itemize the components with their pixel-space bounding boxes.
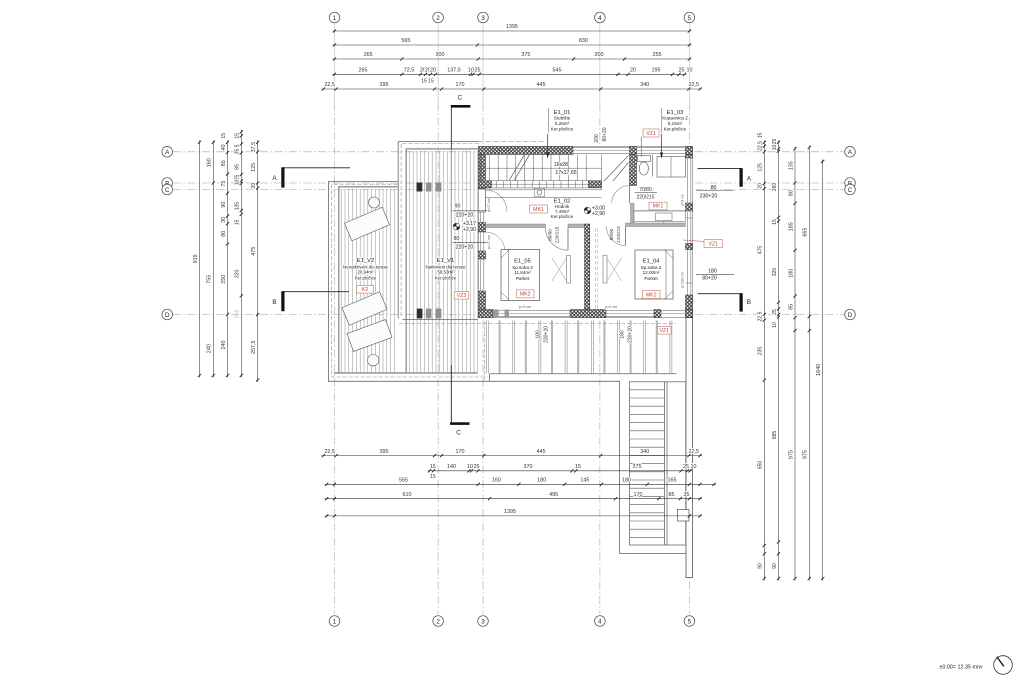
east wall pier 1	[686, 203, 693, 211]
E1_04 door + swing	[607, 227, 626, 246]
svg-text:80: 80	[454, 236, 460, 242]
svg-text:975: 975	[803, 450, 809, 459]
WC toilet	[638, 156, 651, 162]
south wall pier right	[654, 310, 661, 318]
svg-text:140: 140	[447, 464, 456, 470]
svg-text:90: 90	[758, 563, 764, 569]
top dimension row 3	[333, 58, 692, 60]
svg-text:180: 180	[708, 268, 717, 274]
E1_01 leader arrow	[548, 108, 550, 133]
svg-text:80+20: 80+20	[602, 127, 608, 141]
section marker C bottom	[450, 365, 452, 422]
west wall sidelight	[479, 212, 481, 223]
right dimension col b	[778, 140, 780, 580]
svg-text:3: 3	[481, 618, 485, 625]
svg-text:135: 135	[235, 202, 241, 211]
svg-text:180: 180	[788, 269, 794, 278]
lower roof joist band below building	[487, 321, 672, 374]
grid bubbles right A-D	[845, 147, 856, 158]
wardrobe E1_05	[567, 256, 571, 284]
svg-text:495: 495	[549, 492, 558, 498]
svg-text:10: 10	[467, 464, 473, 470]
svg-text:E1_04: E1_04	[643, 258, 661, 264]
svg-text:75: 75	[221, 181, 227, 187]
svg-text:160: 160	[207, 158, 213, 167]
svg-text:15: 15	[772, 219, 778, 225]
svg-text:240: 240	[221, 341, 227, 350]
shower / bath fixture	[657, 157, 686, 178]
svg-text:85: 85	[788, 304, 794, 310]
svg-text:170: 170	[456, 449, 465, 455]
bed E1_05	[501, 250, 540, 301]
svg-text:545: 545	[553, 68, 562, 74]
svg-text:370: 370	[524, 464, 533, 470]
svg-text:235: 235	[758, 347, 764, 356]
svg-text:Ker.pločice: Ker.pločice	[551, 214, 574, 219]
left dimension col 5	[257, 140, 259, 382]
svg-text:320: 320	[772, 268, 778, 277]
svg-text:MK2: MK2	[520, 292, 531, 298]
bottom dimension row 3	[325, 483, 716, 485]
svg-text:22,5: 22,5	[758, 141, 764, 151]
svg-text:200: 200	[594, 134, 600, 143]
svg-text:15 15: 15 15	[421, 79, 434, 85]
svg-text:E1_V2: E1_V2	[357, 258, 374, 264]
right dimension col e	[822, 159, 824, 580]
svg-text:340: 340	[640, 82, 649, 88]
svg-text:160: 160	[492, 478, 501, 484]
svg-text:10: 10	[468, 68, 474, 74]
svg-text:565: 565	[399, 478, 408, 484]
svg-text:Ker.pločice: Ker.pločice	[664, 127, 687, 132]
terrace E1_V2 deck boards	[341, 189, 394, 373]
svg-text:220+20: 220+20	[456, 245, 474, 251]
central wall between bedrooms	[585, 224, 590, 310]
svg-text:80: 80	[221, 231, 227, 237]
external stair treads	[630, 390, 664, 538]
terrace V1 outer box	[398, 142, 478, 319]
svg-text:1395: 1395	[504, 509, 516, 515]
grid bubbles bottom 1-5	[329, 616, 340, 627]
svg-text:15: 15	[221, 133, 227, 139]
svg-text:265: 265	[364, 52, 373, 58]
grid axes dash-dot lines	[334, 23, 336, 103]
svg-text:5: 5	[688, 15, 692, 22]
bottom dimension row 5 (1395)	[325, 515, 702, 517]
svg-text:22,5: 22,5	[689, 449, 700, 455]
bathroom west wall	[630, 155, 637, 186]
svg-text:Ker.pločice: Ker.pločice	[435, 275, 457, 280]
svg-text:180: 180	[536, 330, 542, 339]
wardrobe E1_04	[603, 256, 607, 284]
staircase lower flight treads	[486, 181, 589, 188]
grid bubbles top 1-5	[329, 12, 340, 23]
svg-text:25: 25	[679, 68, 685, 74]
svg-text:C: C	[848, 187, 853, 194]
right dimension col c	[794, 147, 796, 581]
svg-text:15: 15	[235, 133, 241, 139]
svg-text:220+20: 220+20	[456, 213, 474, 219]
svg-text:20,94m²: 20,94m²	[357, 270, 374, 275]
svg-text:22,5: 22,5	[758, 311, 764, 321]
svg-text:180: 180	[537, 478, 546, 484]
svg-text:830: 830	[579, 38, 588, 44]
svg-text:30: 30	[221, 217, 227, 223]
roof overhang dashed line above building	[479, 140, 545, 142]
svg-text:59,53m²: 59,53m²	[437, 270, 454, 275]
detector circle	[534, 189, 545, 197]
svg-text:16x28: 16x28	[554, 162, 568, 168]
right dimension col d	[808, 146, 810, 581]
west wall pier	[479, 223, 486, 233]
terrace posts bottom row	[417, 309, 423, 319]
svg-text:85: 85	[669, 492, 675, 498]
terrace level marker	[453, 223, 460, 230]
svg-text:Parket: Parket	[516, 276, 530, 281]
svg-text:10: 10	[687, 68, 693, 74]
svg-text:22,5: 22,5	[689, 82, 700, 88]
svg-text:25: 25	[683, 464, 689, 470]
bottom dimension row 4	[325, 498, 702, 500]
VZ1 box top + red leader	[643, 129, 659, 137]
top dimension row 4	[333, 73, 687, 75]
svg-text:80: 80	[788, 190, 794, 196]
svg-text:170: 170	[634, 492, 643, 498]
svg-text:125: 125	[251, 163, 257, 172]
svg-text:Ker.pločice: Ker.pločice	[355, 275, 377, 280]
east wall segment top	[686, 155, 693, 159]
svg-text:885: 885	[772, 431, 778, 440]
svg-text:K2: K2	[362, 287, 368, 293]
west wall segment upper	[479, 155, 486, 190]
svg-text:240: 240	[207, 344, 213, 353]
svg-text:C: C	[456, 430, 461, 437]
svg-text:2: 2	[436, 15, 440, 22]
stair wall block left	[479, 181, 492, 188]
exterior wall top segment 2	[630, 147, 637, 155]
svg-text:Parket: Parket	[644, 276, 658, 281]
svg-text:+2,90: +2,90	[592, 211, 605, 217]
staircase E1_01 upper flight treads	[479, 155, 602, 181]
svg-text:15: 15	[235, 220, 241, 226]
svg-text:15: 15	[575, 464, 581, 470]
bathroom south boundary / closet top	[634, 210, 686, 212]
east wall lower corner	[686, 295, 693, 318]
svg-text:145: 145	[580, 478, 589, 484]
svg-text:1: 1	[333, 618, 337, 625]
stair zone lines	[486, 180, 602, 182]
svg-text:395: 395	[380, 449, 389, 455]
top dimension row 2 (565/830)	[333, 44, 692, 46]
west wall lower corner	[479, 291, 486, 318]
east wall window 2	[686, 211, 688, 244]
top wall window (bathroom)	[637, 147, 686, 149]
svg-text:Ker.pločice: Ker.pločice	[551, 127, 574, 132]
south wall window (E1_04)	[606, 310, 654, 312]
svg-text:MK2: MK2	[646, 292, 657, 298]
level marker corridor	[584, 207, 591, 214]
E1_03 leader arrow	[661, 108, 663, 133]
svg-text:35: 35	[684, 492, 690, 498]
left dimension col 1 (915)	[199, 140, 201, 377]
svg-text:610: 610	[403, 492, 412, 498]
svg-text:80/90: 80/90	[548, 229, 553, 241]
svg-text:Kupaonica 2: Kupaonica 2	[662, 116, 688, 121]
svg-text:20: 20	[251, 183, 257, 189]
lounger side tables (circles)	[369, 197, 380, 208]
svg-text:445: 445	[537, 82, 546, 88]
south wall window right	[661, 310, 686, 312]
svg-text:220/215: 220/215	[555, 226, 560, 243]
west wall pier 2	[479, 251, 486, 259]
svg-text:VZ1: VZ1	[646, 131, 656, 137]
svg-text:80+20: 80+20	[702, 276, 717, 282]
svg-text:20: 20	[630, 68, 636, 74]
sun lounger 1	[342, 207, 392, 351]
svg-text:665: 665	[803, 228, 809, 237]
bath divider	[652, 155, 654, 177]
svg-text:505: 505	[235, 309, 241, 318]
section marker A left	[283, 167, 350, 169]
grid bubbles left A-D	[162, 147, 173, 158]
terrace E1_V1 deck boards	[409, 151, 477, 373]
svg-text:25: 25	[475, 68, 481, 74]
west wall door to terrace + swing	[486, 190, 508, 212]
svg-text:D: D	[848, 312, 853, 319]
svg-text:VZ1: VZ1	[659, 328, 669, 334]
svg-text:3: 3	[481, 15, 485, 22]
svg-text:250: 250	[221, 275, 227, 284]
svg-text:565: 565	[401, 38, 410, 44]
svg-text:2: 2	[436, 618, 440, 625]
svg-text:265: 265	[359, 68, 368, 74]
E1_04 north wall	[626, 223, 686, 227]
MK1 box left	[530, 205, 548, 213]
terrace posts top row	[417, 183, 423, 192]
building floor slab (white)	[479, 147, 693, 318]
corridor south wall right part	[568, 224, 585, 228]
exterior wall top segment 1	[479, 147, 574, 155]
svg-text:5: 5	[235, 144, 241, 147]
terrace V1 gray deck border	[405, 149, 407, 373]
svg-text:1640: 1640	[816, 364, 822, 376]
svg-text:VZ3: VZ3	[457, 293, 467, 299]
bottom dimension row 2	[428, 470, 692, 472]
central roof dashed lines	[594, 228, 596, 310]
svg-text:E1_V1: E1_V1	[437, 258, 454, 264]
svg-text:230+20: 230+20	[544, 326, 550, 343]
svg-text:255: 255	[653, 52, 662, 58]
right dimension col a	[763, 140, 765, 580]
east wall pier 2	[686, 244, 693, 250]
top wall window (stair)	[573, 147, 630, 149]
svg-text:p=17 cm: p=17 cm	[487, 235, 491, 249]
svg-text:220/215: 220/215	[636, 195, 654, 201]
svg-text:475: 475	[251, 247, 257, 256]
svg-text:10: 10	[691, 464, 697, 470]
svg-text:MK1: MK1	[533, 207, 544, 213]
section marker B right	[698, 293, 742, 295]
svg-text:125: 125	[758, 163, 764, 172]
terrace V2 gray deck border	[338, 187, 340, 373]
svg-text:A: A	[747, 176, 752, 183]
west wall window 80	[479, 232, 481, 251]
svg-text:1395: 1395	[506, 24, 518, 30]
svg-text:E1_05: E1_05	[514, 258, 531, 264]
terrace outer boundary	[328, 181, 686, 553]
top dimension row 1 (1395)	[333, 30, 692, 32]
top dimension row 5	[321, 88, 702, 90]
south wall right corner	[686, 310, 693, 318]
svg-text:320: 320	[235, 270, 241, 279]
svg-text:25: 25	[235, 175, 241, 181]
svg-text:12,00m²: 12,00m²	[643, 270, 660, 275]
svg-text:4: 4	[598, 618, 602, 625]
svg-text:+2,90: +2,90	[463, 227, 476, 233]
svg-text:80/90: 80/90	[609, 228, 614, 240]
svg-text:5,15m²: 5,15m²	[668, 121, 683, 126]
svg-text:C: C	[165, 187, 170, 194]
hvac label VZ1 lower	[658, 327, 672, 335]
terrace V2 inner dashed border	[332, 184, 488, 377]
corridor door E1_05 + swing	[546, 228, 569, 251]
svg-text:195: 195	[652, 68, 661, 74]
svg-text:25: 25	[772, 139, 778, 145]
svg-text:15: 15	[430, 464, 436, 470]
svg-text:1: 1	[333, 15, 337, 22]
svg-text:135: 135	[788, 161, 794, 170]
svg-text:230+20: 230+20	[700, 193, 718, 199]
east wall window 3 (E1_04, 180)	[686, 250, 688, 296]
svg-text:p=0 cm: p=0 cm	[519, 305, 531, 309]
stair wall block right	[588, 181, 601, 188]
svg-text:90: 90	[455, 204, 461, 210]
svg-text:300: 300	[436, 52, 445, 58]
VZ1 box right + leader	[683, 240, 704, 242]
svg-text:5,26m²: 5,26m²	[555, 121, 570, 126]
svg-text:Natkriveni dio terase: Natkriveni dio terase	[425, 264, 466, 269]
bed E1_04	[635, 250, 673, 299]
section marker B left	[283, 291, 349, 293]
svg-text:VZ1: VZ1	[708, 241, 718, 247]
terrace deck bottom edge	[334, 372, 478, 374]
south wall centre pier	[570, 310, 606, 318]
bathroom door + swing	[612, 186, 630, 204]
left dimension col 3	[227, 140, 229, 377]
svg-text:180: 180	[620, 330, 626, 339]
svg-text:Nenatkriveni dio terase: Nenatkriveni dio terase	[343, 264, 388, 269]
svg-text:p=17 cm: p=17 cm	[487, 198, 491, 212]
svg-text:p=130 cm: p=130 cm	[680, 272, 684, 288]
svg-text:185: 185	[788, 222, 794, 231]
svg-text:200: 200	[595, 52, 604, 58]
svg-text:±0.00= 12.35 mnv: ±0.00= 12.35 mnv	[939, 664, 983, 670]
svg-text:A: A	[272, 175, 277, 182]
left dimension col 2	[212, 140, 214, 377]
svg-text:D: D	[165, 312, 170, 319]
svg-text:80: 80	[711, 185, 717, 191]
svg-text:170: 170	[456, 82, 465, 88]
svg-text:975: 975	[788, 450, 794, 459]
south wall window band left	[493, 310, 570, 312]
svg-text:10: 10	[772, 145, 778, 151]
corridor south wall left part	[486, 224, 546, 228]
svg-text:15: 15	[430, 474, 436, 480]
svg-text:10: 10	[235, 180, 241, 186]
staircase break line	[509, 155, 524, 180]
svg-text:B: B	[272, 299, 276, 306]
svg-text:40: 40	[221, 144, 227, 150]
svg-text:257,5: 257,5	[251, 340, 257, 354]
left dimension col 4	[240, 130, 242, 378]
svg-text:22,5: 22,5	[324, 449, 335, 455]
svg-text:755: 755	[207, 275, 213, 284]
svg-text:375: 375	[633, 464, 642, 470]
section marker A right	[698, 168, 742, 170]
svg-text:72,5: 72,5	[404, 68, 415, 74]
svg-text:137,5: 137,5	[447, 68, 461, 74]
building right wall shaft extension	[686, 318, 693, 578]
exterior wall top corner right	[686, 147, 693, 155]
svg-text:20: 20	[430, 68, 436, 74]
svg-text:915: 915	[193, 254, 199, 263]
bottom dimension row 1	[321, 455, 702, 457]
svg-text:25: 25	[474, 464, 480, 470]
external stair enclosure	[630, 382, 686, 545]
svg-text:B: B	[747, 299, 751, 306]
north symbol	[994, 656, 1013, 675]
svg-text:165: 165	[668, 478, 677, 484]
E1_04 closet row	[634, 211, 686, 222]
south wall left corner	[479, 310, 494, 318]
svg-text:C: C	[458, 95, 463, 102]
svg-text:11,84m²: 11,84m²	[514, 270, 531, 275]
svg-text:35: 35	[235, 149, 241, 155]
svg-text:445: 445	[537, 449, 546, 455]
bathroom/corridor stub wall	[631, 203, 635, 223]
svg-text:MK1: MK1	[653, 204, 664, 210]
svg-text:85: 85	[235, 164, 241, 170]
east wall window (bath)	[686, 158, 688, 203]
svg-text:4: 4	[598, 15, 602, 22]
svg-text:220/215: 220/215	[616, 226, 621, 243]
west wall window (E1_05)	[479, 259, 481, 291]
svg-text:20: 20	[758, 183, 764, 189]
svg-text:230+20: 230+20	[628, 326, 634, 343]
svg-text:15: 15	[758, 133, 764, 139]
svg-text:17x17,65: 17x17,65	[555, 170, 576, 176]
svg-text:5: 5	[688, 618, 692, 625]
svg-text:475: 475	[758, 246, 764, 255]
svg-text:25: 25	[772, 309, 778, 315]
svg-text:395: 395	[380, 82, 389, 88]
terrace V1 inner dashed border	[401, 143, 478, 316]
svg-text:180: 180	[622, 478, 631, 484]
svg-text:22,5: 22,5	[324, 82, 335, 88]
MK1 box right	[649, 202, 667, 210]
svg-text:90: 90	[221, 202, 227, 208]
svg-text:340: 340	[640, 449, 649, 455]
svg-text:375: 375	[521, 52, 530, 58]
svg-text:10: 10	[772, 322, 778, 328]
svg-text:85: 85	[221, 160, 227, 166]
svg-text:37,5: 37,5	[251, 142, 257, 153]
svg-text:90: 90	[772, 563, 778, 569]
svg-text:260: 260	[772, 183, 778, 192]
svg-text:p=9 cm: p=9 cm	[680, 194, 684, 206]
small landing box right	[678, 510, 690, 522]
svg-text:p=0 cm: p=0 cm	[605, 305, 617, 309]
